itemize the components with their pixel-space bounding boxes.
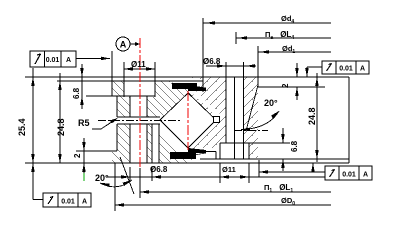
svg-text:2: 2 [73, 153, 82, 158]
svg-text:6.8: 6.8 [72, 87, 81, 99]
svg-text:A: A [363, 172, 368, 179]
svg-text:0.01: 0.01 [61, 199, 75, 206]
svg-text:20°: 20° [95, 173, 109, 183]
svg-text:20°: 20° [264, 98, 278, 108]
svg-text:A: A [360, 66, 365, 73]
svg-text:Ø11: Ø11 [131, 60, 146, 69]
svg-text:24.8: 24.8 [56, 118, 66, 136]
svg-text:R5: R5 [78, 118, 90, 128]
svg-text:6.8: 6.8 [290, 140, 299, 152]
svg-text:2: 2 [281, 83, 290, 88]
svg-text:A: A [82, 199, 87, 206]
svg-text:A: A [66, 57, 71, 64]
svg-text:24.8: 24.8 [307, 107, 317, 125]
svg-text:0.01: 0.01 [342, 172, 356, 179]
svg-text:25.4: 25.4 [17, 118, 27, 136]
svg-text:Ø11: Ø11 [222, 165, 236, 174]
svg-text:A: A [120, 40, 127, 50]
svg-text:0.01: 0.01 [339, 66, 353, 73]
svg-text:Ø6.8: Ø6.8 [150, 165, 168, 174]
svg-text:Ø6.8: Ø6.8 [203, 57, 221, 66]
svg-text:0.01: 0.01 [46, 57, 60, 64]
